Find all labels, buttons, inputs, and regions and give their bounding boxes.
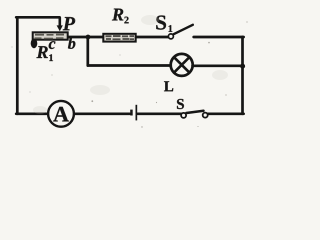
battery negative plate (short thick) (130, 110, 133, 116)
label R2 (112, 9, 123, 21)
wire: junction to R2 (88, 36, 103, 39)
wire: ammeter to battery (74, 112, 129, 115)
wire: right vertical side (241, 37, 244, 114)
wire: battery to switch S (138, 112, 183, 115)
lamp L (171, 54, 193, 76)
scan noise speckles (12, 20, 248, 128)
wire: lamp branch vertical drop (86, 37, 89, 66)
wire: left vertical side (16, 17, 19, 114)
ammeter A body (48, 101, 74, 127)
wire: bottom from left corner to ammeter (16, 112, 48, 115)
resistor R2 interior speckles (106, 35, 135, 40)
rheostat R1 interior speckles (35, 34, 65, 40)
switch S lever (186, 111, 203, 113)
label R2 subscript 2 (124, 17, 128, 24)
label L (164, 81, 173, 91)
switch S right terminal (203, 113, 208, 118)
wire: rheostat b terminal to junction (69, 36, 88, 39)
label R1 subscript 1 (49, 54, 53, 61)
wire: R2 to S1 (137, 36, 168, 39)
terminal a (solid blob) (31, 39, 38, 49)
paper background (0, 0, 256, 132)
wire: lamp branch horizontal (88, 64, 171, 67)
label b terminal (68, 38, 75, 49)
battery positive plate (long thin) (136, 105, 138, 121)
ammeter A letter (53, 107, 69, 122)
rheostat R1 body (33, 32, 68, 39)
lamp L cross (174, 57, 190, 73)
slider arrow P (shaft) (58, 17, 61, 26)
label P (63, 17, 75, 30)
label S1 (156, 16, 166, 30)
wire: top right from S1 to corner (194, 36, 244, 39)
label R1 (36, 46, 47, 58)
junction dot (lamp to right wire) (240, 64, 245, 69)
label S (main switch) (177, 99, 184, 109)
resistor R2 body (103, 34, 135, 42)
switch S1 pivot (168, 34, 173, 39)
wire: lamp to right vertical (193, 64, 243, 67)
slider arrow P (head) (57, 25, 63, 31)
junction dot (node b split) (86, 35, 91, 40)
switch S left terminal (181, 113, 186, 118)
label c terminal (49, 41, 56, 49)
wire: switch S to right corner (207, 112, 244, 115)
switch S1 lever (174, 25, 193, 34)
label S1 subscript 1 (169, 25, 173, 32)
wire: top-left horizontal to slider (16, 16, 59, 19)
